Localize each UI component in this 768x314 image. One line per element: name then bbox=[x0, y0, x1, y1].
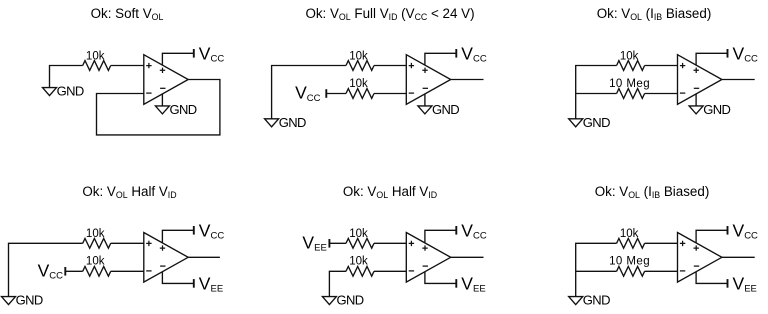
wire: GND to R1 bbox=[50, 66, 83, 88]
wire: R4 to + input bbox=[645, 65, 678, 67]
wire: V+ supply bbox=[425, 230, 456, 243]
ground GND (input) bbox=[569, 115, 610, 130]
wire: left rail to R10 bbox=[576, 243, 617, 296]
wire: R7 to - input bbox=[111, 270, 144, 272]
resistor R11 10 Meg bbox=[617, 266, 645, 276]
label VCC bbox=[199, 43, 225, 64]
svg-text:GND: GND bbox=[279, 115, 306, 130]
wire: V- supply to GND bbox=[695, 94, 697, 106]
svg-text:VCC: VCC bbox=[295, 83, 321, 104]
label VCC supply bbox=[733, 220, 759, 241]
label VCC supply bbox=[199, 220, 225, 241]
svg-text:GND: GND bbox=[583, 115, 610, 130]
svg-text:GND: GND bbox=[583, 293, 610, 308]
wire: R11 to - input bbox=[645, 270, 678, 272]
label VEE supply bbox=[199, 273, 223, 294]
op-amp U3 bbox=[678, 55, 722, 105]
label VCC supply bbox=[733, 43, 759, 64]
wire: V- supply to VEE bbox=[162, 272, 193, 284]
svg-text:VCC: VCC bbox=[199, 220, 225, 241]
svg-text:10 Meg: 10 Meg bbox=[609, 78, 650, 90]
svg-text:VCC: VCC bbox=[199, 43, 225, 64]
wire: V+ supply bbox=[425, 53, 456, 65]
wire: R5 to - input bbox=[645, 93, 678, 95]
wire: left rail to R11 bbox=[576, 270, 617, 272]
svg-text:Ok: VOL (IIB Biased): Ok: VOL (IIB Biased) bbox=[595, 184, 710, 200]
wire: output feedback to - input bbox=[97, 80, 220, 135]
label VCC supply bbox=[461, 220, 487, 241]
ground GND (supply) bbox=[689, 102, 730, 117]
resistor R10 10k bbox=[617, 238, 645, 248]
resistor R8 10k bbox=[346, 238, 374, 248]
wire: V+ supply bbox=[696, 53, 727, 65]
svg-text:10 Meg: 10 Meg bbox=[609, 256, 650, 268]
wire: output bbox=[451, 79, 484, 81]
terminal VCC input bbox=[325, 89, 327, 98]
terminal VCC supply bbox=[193, 49, 195, 58]
wire: output bbox=[188, 256, 220, 258]
svg-text:VCC: VCC bbox=[461, 43, 487, 64]
op-amp U2 bbox=[406, 55, 450, 105]
op-amp U1 bbox=[144, 55, 188, 105]
terminal VCC supply bbox=[727, 49, 729, 58]
svg-text:Ok: VOL Full VID (VCC < 24 V): Ok: VOL Full VID (VCC < 24 V) bbox=[305, 6, 474, 22]
ground GND (input) bbox=[569, 293, 610, 308]
svg-text:VEE: VEE bbox=[733, 273, 757, 294]
resistor R5 10 Meg bbox=[617, 89, 645, 99]
wire: VEE to R8 bbox=[329, 242, 346, 244]
wire: output bbox=[722, 79, 755, 81]
terminal VCC input bbox=[64, 267, 66, 276]
terminal VCC supply bbox=[455, 226, 457, 235]
svg-text:VEE: VEE bbox=[199, 273, 223, 294]
wire: V- supply to GND bbox=[424, 94, 426, 106]
op-amp U4 bbox=[144, 233, 188, 283]
wire: output bbox=[722, 256, 755, 258]
wire: R3 to - input bbox=[374, 93, 406, 95]
op-amp U5 bbox=[406, 233, 450, 283]
resistor R6 10k bbox=[83, 238, 111, 248]
terminal VCC supply bbox=[193, 226, 195, 235]
resistor R7 10k bbox=[83, 266, 111, 276]
wire: V- supply to VEE bbox=[425, 272, 456, 284]
svg-text:GND: GND bbox=[16, 293, 43, 308]
svg-text:VEE: VEE bbox=[461, 273, 485, 294]
svg-text:10k: 10k bbox=[86, 228, 105, 240]
svg-text:10k: 10k bbox=[349, 256, 368, 268]
resistor R1 10k bbox=[83, 61, 111, 71]
terminal VCC supply bbox=[455, 49, 457, 58]
terminal VEE supply bbox=[727, 279, 729, 288]
wire: V+ supply bbox=[696, 230, 727, 243]
svg-text:GND: GND bbox=[337, 293, 364, 308]
label VEE supply bbox=[461, 273, 485, 294]
wire: left rail to R4 bbox=[576, 66, 617, 119]
svg-text:Ok: Soft VOL: Ok: Soft VOL bbox=[91, 6, 164, 22]
label VEE supply bbox=[733, 273, 757, 294]
svg-text:Ok: VOL Half VID: Ok: VOL Half VID bbox=[82, 184, 176, 200]
ground GND (input) bbox=[43, 84, 84, 99]
svg-text:Ok: VOL Half VID: Ok: VOL Half VID bbox=[343, 184, 437, 200]
svg-text:10k: 10k bbox=[349, 78, 368, 90]
wire: R10 to + input bbox=[645, 242, 678, 244]
ground GND (input) bbox=[265, 115, 306, 130]
svg-text:10k: 10k bbox=[86, 256, 105, 268]
label VCC input bbox=[38, 261, 64, 282]
svg-text:VCC: VCC bbox=[38, 261, 64, 282]
wire: left rail to R5 bbox=[576, 93, 617, 95]
wire: R2 to + input bbox=[374, 65, 406, 67]
svg-text:10k: 10k bbox=[620, 228, 639, 240]
svg-text:GND: GND bbox=[432, 102, 459, 117]
svg-text:10k: 10k bbox=[620, 50, 639, 62]
svg-text:10k: 10k bbox=[349, 50, 368, 62]
wire: V+ supply bbox=[162, 230, 193, 243]
svg-text:VCC: VCC bbox=[461, 220, 487, 241]
resistor R4 10k bbox=[617, 61, 645, 71]
svg-text:10k: 10k bbox=[349, 228, 368, 240]
svg-text:GND: GND bbox=[57, 84, 84, 99]
terminal VCC supply bbox=[727, 226, 729, 235]
wire: R6 to + input bbox=[111, 242, 144, 244]
svg-text:VCC: VCC bbox=[733, 220, 759, 241]
ground GND (supply) bbox=[418, 102, 459, 117]
wire: R9 to - input bbox=[374, 270, 406, 272]
label VCC supply bbox=[461, 43, 487, 64]
svg-text:VCC: VCC bbox=[733, 43, 759, 64]
wire: V- supply to GND bbox=[161, 94, 163, 106]
wire: output bbox=[451, 256, 484, 258]
wire: GND up to R9 bbox=[329, 271, 346, 296]
svg-text:VEE: VEE bbox=[302, 233, 326, 254]
wire: V+ supply bbox=[162, 53, 193, 65]
wire: GND up to R2 bbox=[272, 66, 346, 119]
svg-text:10k: 10k bbox=[86, 50, 105, 62]
svg-text:Ok: VOL (IIB Biased): Ok: VOL (IIB Biased) bbox=[597, 6, 712, 22]
ground GND (supply) bbox=[155, 102, 196, 117]
resistor R9 10k bbox=[346, 266, 374, 276]
label VCC input bbox=[295, 83, 321, 104]
ground GND (input) bbox=[322, 293, 363, 308]
terminal VEE supply bbox=[193, 279, 195, 288]
label VEE input bbox=[302, 233, 326, 254]
wire: VCC to R7 bbox=[65, 270, 82, 272]
resistor R2 10k bbox=[346, 61, 374, 71]
ground GND (input) bbox=[2, 293, 43, 308]
wire: R1 to + input bbox=[111, 65, 144, 67]
svg-text:GND: GND bbox=[703, 102, 730, 117]
wire: GND up to R6 bbox=[9, 243, 83, 296]
terminal VEE supply bbox=[455, 279, 457, 288]
svg-text:GND: GND bbox=[170, 102, 197, 117]
op-amp U6 bbox=[678, 233, 722, 283]
terminal VEE input bbox=[328, 239, 330, 248]
resistor R3 10k bbox=[346, 89, 374, 99]
wire: VCC to R3 bbox=[326, 93, 346, 95]
wire: R8 to + input bbox=[374, 242, 406, 244]
wire: V- supply to VEE bbox=[696, 272, 727, 284]
